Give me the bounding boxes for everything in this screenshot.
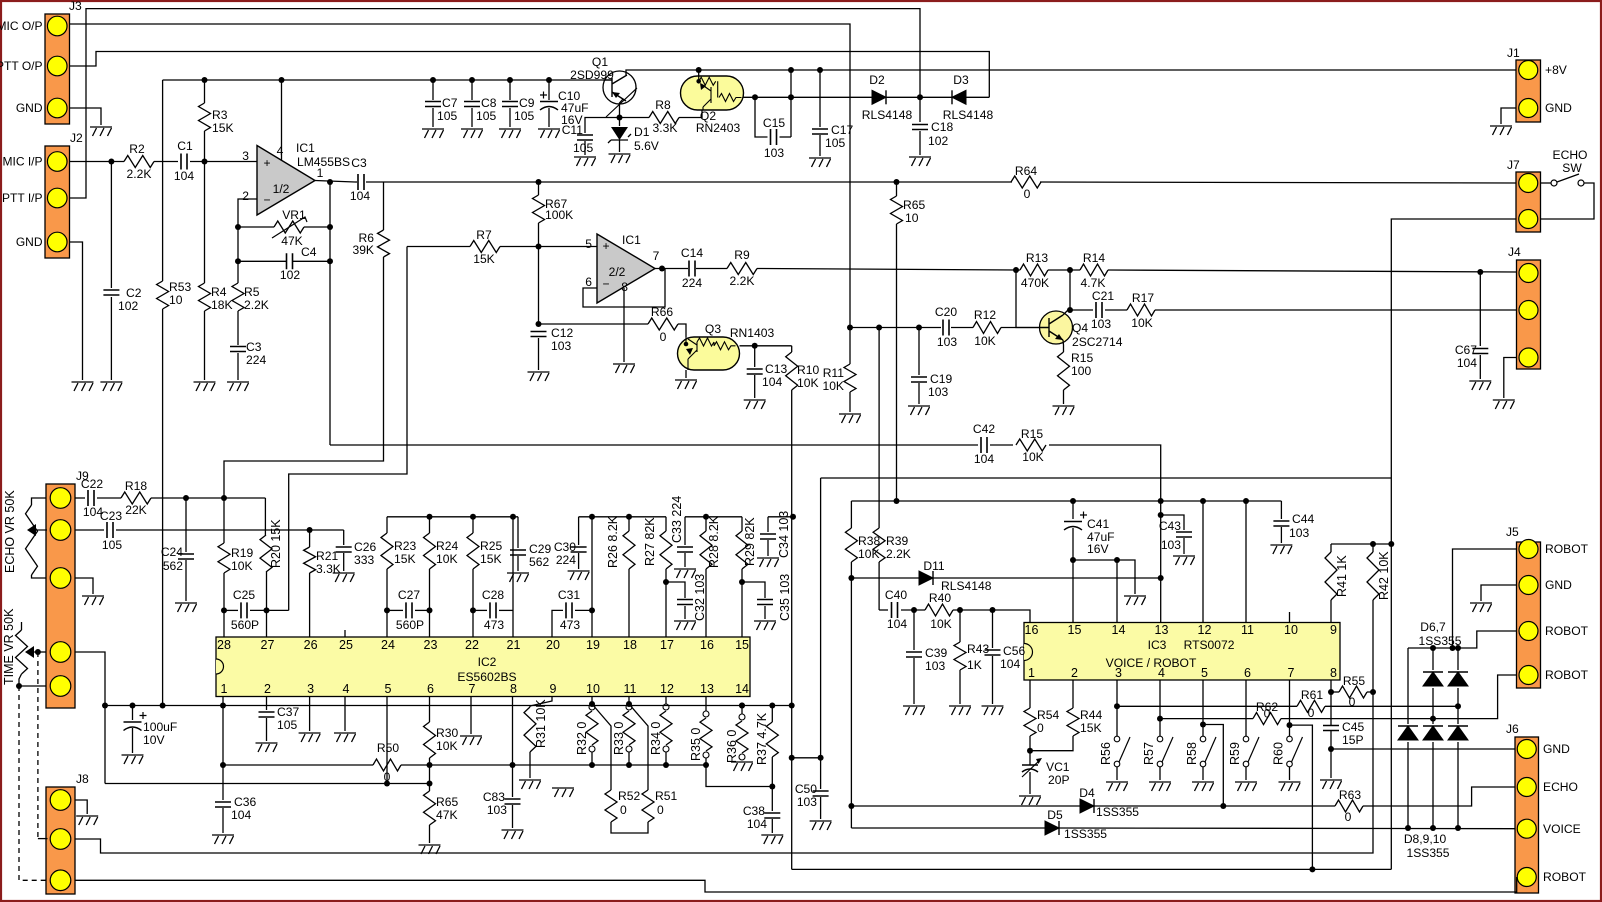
switch ECHO SW [1551, 180, 1557, 186]
wire Q3 emitter ground [685, 370, 687, 378]
svg-text:1: 1 [1028, 666, 1035, 680]
svg-text:8: 8 [510, 682, 517, 696]
wire op1 out vertical to 445 line [329, 182, 331, 445]
svg-text:PTT O/P: PTT O/P [0, 59, 43, 73]
svg-text:PTT I/P: PTT I/P [2, 191, 42, 205]
svg-text:2.2K: 2.2K [730, 274, 755, 288]
svg-text:10K: 10K [858, 547, 880, 561]
resistor R11 [849, 328, 851, 365]
svg-text:R20 15K: R20 15K [269, 519, 283, 568]
IC U2 ES5602BS body [216, 637, 750, 697]
svg-text:15K: 15K [212, 121, 234, 135]
svg-text:9: 9 [550, 682, 557, 696]
transistor Q1 2SD999 [603, 71, 636, 104]
capacitor C15 [755, 97, 768, 137]
svg-text:IC3: IC3 [1148, 638, 1167, 652]
ground R4 [194, 382, 216, 391]
svg-text:103: 103 [551, 339, 571, 353]
svg-text:+: + [263, 156, 270, 170]
svg-text:R61: R61 [1301, 688, 1323, 702]
wire J9 pin2 C23 line [75, 529, 104, 531]
svg-text:C44: C44 [1292, 512, 1314, 526]
wire IC2 pin1 vertical C36 [222, 697, 224, 801]
resistor R27 pin17 [665, 517, 667, 531]
capacitor C56 [992, 610, 994, 648]
wire D2 to D3 [886, 96, 952, 98]
svg-text:20: 20 [546, 638, 560, 652]
diode D11 RLS4148 [919, 571, 933, 585]
svg-text:ROBOT: ROBOT [1545, 542, 1589, 556]
svg-text:C33 224: C33 224 [670, 496, 684, 543]
wire pulldown bus y765 [223, 764, 373, 766]
svg-text:6: 6 [427, 682, 434, 696]
svg-text:R51: R51 [655, 789, 677, 803]
capacitor C35 103 [742, 582, 765, 598]
diode D3 RLS4148 [952, 90, 966, 104]
resistor R43 [959, 610, 961, 642]
svg-text:28: 28 [217, 638, 231, 652]
wire J8 pin3 bottom bus to J6 ROBOT [75, 877, 1517, 892]
capacitor C44 [1280, 501, 1282, 519]
svg-text:R15: R15 [1021, 427, 1043, 441]
resistor R20 pin27 chain [264, 498, 266, 535]
capacitor C18 [919, 97, 921, 122]
svg-text:104: 104 [747, 817, 767, 831]
svg-text:7: 7 [653, 249, 660, 263]
ground C39 [903, 706, 925, 715]
svg-text:C83: C83 [483, 790, 505, 804]
ground C24 [175, 603, 197, 612]
ground C30 [568, 571, 590, 580]
svg-text:ECHO: ECHO [1543, 780, 1578, 794]
capacitor C20 [943, 320, 949, 336]
svg-text:C21: C21 [1092, 289, 1114, 303]
ground 100uF [122, 755, 144, 764]
wire R41 R42 header [1331, 543, 1391, 545]
svg-text:R64: R64 [1015, 164, 1037, 178]
svg-text:C32 103: C32 103 [693, 574, 707, 621]
wire J9 pin4 right branch [75, 652, 105, 784]
svg-text:562: 562 [529, 555, 549, 569]
wire Q1 emitter node [620, 99, 624, 118]
trimmer capacitor VC1 20P [1022, 765, 1038, 772]
svg-text:2SD999: 2SD999 [570, 68, 614, 82]
svg-text:J7: J7 [1507, 158, 1520, 172]
svg-text:J2: J2 [70, 131, 83, 145]
switch R60 [1289, 680, 1291, 736]
svg-text:103: 103 [764, 146, 784, 160]
ground C37 [256, 743, 278, 752]
svg-text:R23: R23 [394, 539, 416, 553]
svg-text:R32 0: R32 0 [575, 722, 589, 755]
svg-text:102: 102 [928, 134, 948, 148]
svg-text:C17: C17 [831, 123, 853, 137]
op-amp U1B LM455BS [597, 234, 655, 303]
resistor R28 pin16 [705, 517, 707, 531]
IC2 pin25 stub [344, 630, 346, 637]
svg-text:C1: C1 [177, 139, 193, 153]
svg-text:13: 13 [1155, 623, 1169, 637]
svg-text:R11: R11 [823, 366, 845, 380]
wire C2 branch [110, 162, 112, 289]
wire IC2 pin5 jog [386, 697, 388, 784]
resistor R21 pin26 chain [309, 530, 311, 547]
svg-text:104: 104 [1000, 657, 1020, 671]
svg-text:R36 0: R36 0 [725, 730, 739, 763]
svg-text:15K: 15K [473, 252, 495, 266]
resistor R7 [470, 241, 500, 253]
capacitor C13 [754, 346, 756, 367]
switch R57 [1159, 680, 1161, 736]
diode D2 RLS4148 [872, 90, 886, 104]
svg-text:C24: C24 [161, 545, 183, 559]
dashed wire wiper to J8 pin2 [37, 652, 39, 839]
wire J9 pin5 to pot bottom [19, 685, 46, 687]
resistor R41 1K [1330, 544, 1332, 552]
resistor R61 [1297, 700, 1325, 712]
svg-text:D3: D3 [953, 73, 969, 87]
svg-text:100K: 100K [545, 208, 573, 222]
svg-text:0: 0 [1345, 810, 1352, 824]
capacitor C37 pin2 [266, 697, 268, 711]
svg-text:ROBOT: ROBOT [1545, 624, 1589, 638]
svg-text:C19: C19 [930, 372, 952, 386]
op-amp U1A LM455BS [257, 146, 315, 216]
wire 445 horizontal line op1 to IC3 pin13 [330, 444, 978, 446]
svg-text:R43: R43 [967, 642, 989, 656]
svg-text:J8: J8 [76, 772, 89, 786]
resistor R63 [1335, 800, 1363, 812]
resistor R38 [850, 501, 852, 528]
svg-text:GND: GND [1543, 742, 1570, 756]
resistor R62 [1253, 713, 1281, 725]
svg-text:C23: C23 [100, 509, 122, 523]
ground J1 [1490, 126, 1512, 135]
svg-text:R60: R60 [1272, 742, 1286, 765]
svg-text:R59: R59 [1228, 742, 1242, 765]
diode D7 1SS355 [1448, 672, 1468, 686]
resistor R53 [157, 281, 169, 309]
capacitor C1 [181, 154, 187, 170]
transistor Q4 2SC2714 [1040, 311, 1073, 344]
svg-text:10K: 10K [231, 559, 253, 573]
svg-text:20P: 20P [1048, 773, 1070, 787]
svg-text:224: 224 [556, 553, 576, 567]
resistor R15 dup 10K [1016, 439, 1046, 451]
svg-text:R28 8.2K: R28 8.2K [707, 515, 721, 568]
wire J8 pin2 to R55 node [75, 692, 1373, 853]
ground J3 [90, 127, 112, 136]
resistor R13 [1020, 264, 1048, 276]
svg-text:6: 6 [1244, 666, 1251, 680]
svg-text:470K: 470K [1021, 276, 1049, 290]
svg-text:2.2K: 2.2K [244, 298, 269, 312]
svg-text:10V: 10V [143, 733, 165, 747]
svg-text:103: 103 [937, 335, 957, 349]
capacitor C26 333 [343, 530, 345, 545]
svg-text:R25: R25 [480, 539, 502, 553]
switch R59 [1245, 680, 1247, 736]
connector J6 [1515, 737, 1539, 893]
ground C19 [908, 406, 930, 415]
diode D10 1SS355 [1448, 726, 1468, 740]
svg-text:R9: R9 [734, 248, 750, 262]
resistor R15 100 [1058, 352, 1070, 390]
wire D11 line [851, 577, 919, 579]
wire echo return line y869 [792, 868, 1392, 870]
svg-text:3.3K: 3.3K [653, 121, 678, 135]
svg-text:R12: R12 [974, 308, 996, 322]
svg-text:R27 82K: R27 82K [643, 517, 657, 566]
svg-text:15: 15 [1068, 623, 1082, 637]
svg-text:C22: C22 [81, 477, 103, 491]
wire diode D6 D9 vertical [1432, 648, 1434, 670]
svg-text:+: + [602, 239, 609, 253]
svg-text:R35 0: R35 0 [689, 728, 703, 761]
svg-text:104: 104 [231, 808, 251, 822]
svg-text:24: 24 [381, 638, 395, 652]
wire op2 pin8 to ground [623, 288, 625, 362]
node J4 pin1 C67 junction [1477, 269, 1483, 275]
svg-text:14: 14 [1112, 623, 1126, 637]
ground C41 jog [1124, 596, 1146, 605]
wire rail2 C30 R26 R27 [579, 516, 666, 518]
svg-text:C9: C9 [519, 96, 535, 110]
wire IC3 pin2 R44 [1072, 680, 1074, 708]
svg-text:103: 103 [487, 803, 507, 817]
svg-text:14: 14 [735, 682, 749, 696]
wire link 757 to C50 vertical [792, 757, 821, 759]
svg-text:0: 0 [1024, 187, 1031, 201]
capacitor C19 [918, 328, 920, 376]
svg-text:ROBOT: ROBOT [1543, 870, 1587, 884]
wire R66 line [539, 323, 649, 325]
connector J5 [1517, 542, 1541, 688]
capacitor C41 47uF 16V electrolytic on pin15 [1072, 501, 1074, 519]
svg-text:C56: C56 [1003, 644, 1025, 658]
svg-text:105: 105 [437, 109, 457, 123]
svg-text:C50: C50 [795, 782, 817, 796]
capacitor C12 [536, 321, 542, 327]
svg-text:C67: C67 [1455, 343, 1477, 357]
wire J9 pin1 C22 R18 line [75, 497, 85, 499]
resistor R24 pin23 [429, 517, 431, 533]
capacitor C23 [107, 522, 113, 538]
svg-text:473: 473 [560, 618, 580, 632]
svg-text:VR1: VR1 [282, 208, 306, 222]
wire PTT O/P to D3 right end [70, 52, 990, 98]
svg-text:3: 3 [307, 682, 314, 696]
wire IC2 pin3 ground [309, 697, 311, 732]
svg-text:5.6V: 5.6V [634, 139, 660, 153]
wire op2 output to J4 pin1 (R9 R13 R14) [655, 268, 688, 270]
wire pin19 riser [591, 517, 593, 637]
svg-text:19: 19 [586, 638, 600, 652]
resistor R33 link [628, 697, 630, 705]
wire +8V drop to C15 [788, 67, 794, 73]
svg-text:105: 105 [102, 538, 122, 552]
svg-text:R29 82K: R29 82K [743, 517, 757, 566]
wire op1 inverting input feedback [238, 199, 257, 261]
resistor R2 [124, 156, 154, 168]
node Q4 base R13 drop [1013, 267, 1019, 273]
svg-text:IC1: IC1 [622, 233, 641, 247]
svg-text:102: 102 [118, 299, 138, 313]
ground R65-47K [419, 845, 441, 854]
svg-text:10: 10 [905, 211, 919, 225]
svg-text:C11: C11 [562, 123, 584, 137]
resistor R9 [727, 263, 757, 275]
svg-text:17: 17 [660, 638, 674, 652]
svg-text:R53: R53 [169, 280, 191, 294]
wire MIC I/P line to op-amp [70, 161, 124, 163]
wire Q4 emitter R15 [1062, 340, 1065, 352]
svg-text:C29: C29 [529, 542, 551, 556]
capacitor C36 [215, 802, 231, 807]
ground R43 [949, 706, 971, 715]
svg-text:4.7K: 4.7K [1081, 276, 1106, 290]
resistor R66 [648, 318, 678, 330]
ground C18 [909, 157, 931, 166]
svg-text:47K: 47K [436, 808, 458, 822]
ground C50 [810, 821, 832, 830]
svg-text:10K: 10K [1131, 316, 1153, 330]
resistor R12 [973, 322, 1001, 334]
capacitor C3 dup 224 [230, 347, 246, 352]
diode D5 1SS355 [1045, 821, 1059, 835]
wire J7 pin2 to echo enable vertical [1391, 219, 1516, 869]
ground aux near R31 [552, 788, 574, 797]
svg-text:J5: J5 [1506, 525, 1519, 539]
svg-text:R30: R30 [436, 726, 458, 740]
wire IC3 pin4 R62 line to J5 pin4 [1157, 716, 1163, 722]
potentiometer TIME VR 50K [21, 622, 23, 630]
wire diode array top rail to J5 pin3 [1408, 631, 1517, 648]
svg-text:8: 8 [621, 280, 628, 294]
capacitor C7 [430, 77, 436, 83]
wire IC3 pin3 R61 line [1114, 703, 1120, 709]
svg-text:224: 224 [682, 276, 702, 290]
svg-text:C20: C20 [935, 305, 957, 319]
svg-text:C8: C8 [481, 96, 497, 110]
svg-text:C4: C4 [301, 245, 317, 259]
svg-text:ES5602BS: ES5602BS [457, 670, 516, 684]
ground R31 [519, 780, 541, 789]
svg-text:3: 3 [242, 149, 249, 163]
resistor R4 MIC line to ground [204, 162, 206, 284]
svg-text:D1: D1 [634, 125, 650, 139]
svg-text:GND: GND [16, 235, 43, 249]
svg-text:105: 105 [825, 136, 845, 150]
svg-text:RN2403: RN2403 [696, 121, 741, 135]
svg-text:103: 103 [925, 659, 945, 673]
svg-text:R44: R44 [1080, 708, 1102, 722]
svg-text:D2: D2 [869, 73, 885, 87]
svg-text:25: 25 [339, 638, 353, 652]
svg-text:C36: C36 [234, 795, 256, 809]
svg-text:103: 103 [1289, 526, 1309, 540]
ground C67 [1469, 381, 1491, 390]
svg-text:10: 10 [1284, 623, 1298, 637]
capacitor C24 562 [185, 498, 187, 552]
svg-text:2: 2 [242, 189, 249, 203]
svg-text:J3: J3 [69, 0, 82, 13]
svg-text:C25: C25 [233, 588, 255, 602]
capacitor C27 560P [387, 609, 403, 611]
svg-text:−: − [602, 277, 609, 291]
svg-text:−: − [263, 193, 270, 207]
wire R53 vertical from rail to VDD bus [162, 80, 164, 281]
wire PTT I/P to D2-D3 node (top bus) [70, 9, 920, 198]
svg-text:C41: C41 [1087, 517, 1109, 531]
svg-text:VC1: VC1 [1046, 760, 1070, 774]
svg-text:R56: R56 [1099, 742, 1113, 765]
svg-text:11: 11 [1241, 623, 1254, 637]
ground C29 [507, 573, 529, 582]
wire GND line to J6 [1331, 748, 1515, 750]
svg-text:MIC O/P: MIC O/P [0, 19, 43, 33]
wire J1 GND [1501, 108, 1516, 124]
capacitor C21 [1096, 302, 1102, 318]
wire R8 line to Q2 [620, 117, 650, 119]
svg-text:1/2: 1/2 [273, 182, 290, 196]
digital transistor Q3 RN1403 [678, 337, 740, 370]
svg-text:22K: 22K [125, 503, 147, 517]
wire D4 R63 line to J6 ECHO [851, 805, 1080, 807]
svg-text:560P: 560P [231, 618, 259, 632]
svg-text:102: 102 [280, 268, 300, 282]
resistor R23 pin24 [386, 517, 388, 533]
node C1 out junction [202, 159, 208, 165]
svg-text:7: 7 [469, 682, 476, 696]
ground VC1 [1019, 796, 1041, 805]
resistor R67 [538, 182, 540, 195]
wire Q2 top to +8V line [696, 67, 702, 73]
svg-text:10K: 10K [822, 379, 844, 393]
capacitor C50 [820, 478, 822, 789]
capacitor C30 224 [578, 517, 580, 545]
node C34 junction on long vertical [790, 514, 796, 520]
capacitor C11 [585, 118, 620, 134]
capacitor C25 560P row [224, 609, 238, 611]
ground C45 [1320, 780, 1342, 789]
svg-text:1: 1 [221, 682, 228, 696]
wire pin21 riser [512, 517, 514, 637]
capacitor C42 [981, 437, 987, 453]
svg-text:R18: R18 [125, 479, 147, 493]
wire IC3 pin12 riser [1202, 501, 1204, 623]
svg-text:R8: R8 [655, 98, 671, 112]
svg-text:2SC2714: 2SC2714 [1072, 335, 1123, 349]
ground C32 [674, 621, 696, 630]
svg-text:R58: R58 [1185, 742, 1199, 765]
svg-text:16: 16 [700, 638, 714, 652]
svg-text:11: 11 [624, 682, 637, 696]
resistor R6 39K from C3 line down [383, 182, 385, 230]
wire op1 output line to J7 (R64 line) [315, 181, 355, 183]
svg-text:7: 7 [1288, 666, 1295, 680]
svg-text:R10: R10 [797, 363, 819, 377]
capacitor C38 [771, 787, 773, 812]
wire VDD bus y705 [105, 705, 792, 707]
svg-text:104: 104 [1457, 356, 1477, 370]
svg-text:10: 10 [586, 682, 600, 696]
wire Q4 input line [850, 327, 941, 329]
wire IC3 pin8 chain R55 C45 [1330, 680, 1332, 725]
svg-text:0: 0 [660, 330, 667, 344]
svg-text:R15: R15 [1071, 351, 1093, 365]
capacitor C39 [913, 610, 915, 650]
